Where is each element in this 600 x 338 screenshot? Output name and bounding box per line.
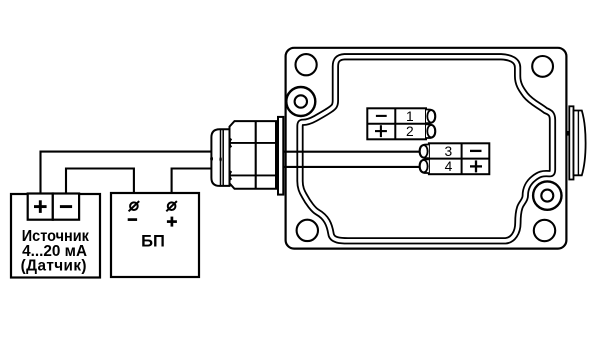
svg-text:(Датчик): (Датчик) — [21, 257, 87, 274]
svg-text:1: 1 — [406, 109, 414, 124]
svg-text:2: 2 — [406, 124, 414, 139]
svg-text:3: 3 — [444, 144, 452, 159]
svg-text:4: 4 — [445, 159, 453, 174]
svg-text:БП: БП — [141, 233, 165, 251]
